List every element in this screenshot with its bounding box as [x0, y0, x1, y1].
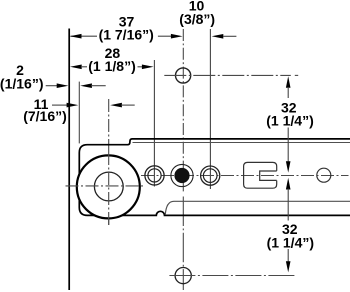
- svg-text:(1 1/4”): (1 1/4”): [267, 235, 314, 251]
- top hole: [176, 68, 191, 83]
- dim 10 tail right: [223, 35, 236, 37]
- roller centerline horizontal: [66, 185, 146, 187]
- roller centerline vertical: [108, 99, 110, 225]
- svg-text:(3/8”): (3/8”): [179, 11, 215, 27]
- dim 11 arrow right: [110, 103, 122, 108]
- top hole centerline horizontal: [164, 74, 290, 76]
- dim 32 bottom line upper: [287, 189, 289, 221]
- dim 37 line right: [158, 35, 172, 37]
- svg-text:(1/16”): (1/16”): [0, 75, 43, 91]
- hole1 outer: [145, 166, 164, 185]
- dim 32 bottom line lower: [287, 249, 289, 264]
- dim 28 tail left: [81, 66, 87, 68]
- dim 10 arrow right: [212, 34, 224, 39]
- hole3 outer: [201, 166, 220, 185]
- dim 32 bottom arrow down: [286, 261, 291, 272]
- rail inner bottom line: [165, 201, 350, 215]
- E-shape cutout: [244, 162, 277, 188]
- dim 28 arrow right: [142, 65, 154, 70]
- black hole centerline vertical: [182, 29, 184, 194]
- roller outer: [77, 155, 140, 218]
- dim 11 arrow left: [67, 103, 79, 108]
- dim 2 arrow right: [80, 83, 92, 88]
- roller centerline vertical inner: [108, 152, 110, 225]
- svg-text:(7/16”): (7/16”): [23, 108, 67, 124]
- holes centerline horizontal: [141, 175, 349, 177]
- rail inner top line: [133, 142, 350, 144]
- svg-text:(1 1/4”): (1 1/4”): [266, 112, 313, 128]
- hole1 inner: [148, 169, 161, 182]
- dim 28 arrow left: [70, 65, 82, 70]
- black hole ring: [171, 164, 193, 186]
- rail outline: [79, 139, 350, 216]
- dim 2 tail right: [91, 85, 106, 87]
- svg-text:(1 7/16”): (1 7/16”): [99, 26, 154, 42]
- hole3 inner: [203, 169, 217, 183]
- front edge line: [68, 29, 70, 291]
- bottom hole centerline horizontal: [169, 275, 296, 277]
- dim 37 arrow right: [171, 34, 183, 39]
- dim 2 arrow left: [57, 83, 69, 88]
- roller inner: [94, 172, 123, 201]
- dim 28 line right: [138, 66, 144, 68]
- dim 37 line left: [71, 35, 98, 37]
- dim 37 arrow left: [70, 34, 82, 39]
- rail front extension line: [78, 82, 80, 144]
- black hole fill: [174, 168, 189, 183]
- dim 32 top arrow down: [286, 161, 291, 172]
- dim 11 tail left: [52, 104, 68, 106]
- dim 32 bottom arrow up: [286, 178, 291, 190]
- dim 11 tail right: [121, 104, 135, 106]
- right circle: [317, 168, 331, 182]
- dim 32 top line lower: [287, 128, 289, 164]
- hole3 extension line: [209, 29, 211, 189]
- dim 2 tail left: [46, 85, 59, 87]
- svg-text:(1 1/8”): (1 1/8”): [88, 58, 135, 74]
- dim 32 top line upper: [287, 88, 289, 98]
- bottom hole: [175, 268, 191, 284]
- dim 32 top arrow up: [286, 76, 291, 88]
- hole1 extension line: [153, 60, 155, 187]
